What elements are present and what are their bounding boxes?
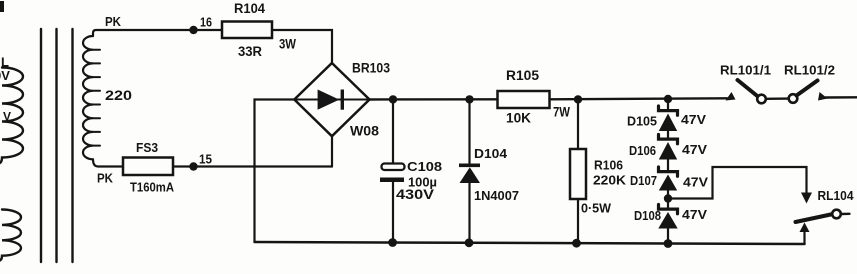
svg-text:16: 16 [200,15,212,30]
zener D108 triangle [658,212,677,229]
svg-text:D105: D105 [627,114,657,129]
zener D107 triangle [659,175,677,191]
wire RL101/2 to edge [826,96,857,99]
junction dot C108 top [389,95,397,103]
svg-text:D106: D106 [629,143,656,158]
zener chain wire bottom [667,229,669,244]
junction dot zener top [664,95,672,103]
zener D106 bar [659,135,678,144]
svg-text:3W: 3W [279,37,296,52]
zener D106 triangle [659,142,677,160]
relay RL104 pivot circle [832,210,841,219]
resistor R104 [222,22,272,39]
fuse FS3 [123,158,173,176]
capacitor C108 top plate [382,164,405,171]
transformer core line 1 [40,29,42,262]
svg-text:W08: W08 [350,124,380,139]
resistor R105 [498,91,550,108]
svg-text:430V: 430V [396,187,434,202]
capacitor C108 bottom plate [380,178,404,183]
zener chain wire from rail [667,99,669,111]
wire between relay pivots [766,97,789,100]
zener D107 bar [659,167,678,176]
capacitor C108 wire bottom [392,182,394,242]
svg-text:1N4007: 1N4007 [474,188,519,203]
transformer core line 2 [55,29,57,262]
wire bottom rail to RL104 lower contact [803,232,805,244]
svg-text:R105: R105 [506,68,539,83]
svg-text:D104: D104 [474,146,508,161]
bottom rail [255,242,805,244]
svg-text:RL101/1: RL101/1 [720,63,771,78]
relay RL104 blade [796,214,834,222]
top rail bridge to R105 [370,98,498,101]
RL104 lower contact arrow [800,223,810,233]
node 15 junction dot [189,162,197,170]
svg-text:RL101/2: RL101/2 [784,63,835,78]
svg-text:47V: 47V [682,142,707,157]
svg-text:PK: PK [105,14,122,29]
diode D104 cathode bar [459,164,480,168]
svg-text:47V: 47V [683,175,708,190]
zener wire 3-4 [667,191,669,208]
zener wire 1-2 [667,131,669,138]
junction dot D104 bottom [465,238,474,247]
wire node 15 to bridge AC2 [194,165,333,167]
resistor R106 wire bottom [577,199,579,243]
RL104 upper contact arrow [801,193,812,204]
capacitor C108 wire top [392,99,394,163]
wire coil bottom to fuse [93,159,123,166]
svg-text:10K: 10K [506,111,531,126]
wire coil top to node 16 [93,30,194,36]
svg-text:PK: PK [97,171,114,186]
svg-text:T160mA: T160mA [130,180,175,195]
svg-text:15: 15 [199,152,212,167]
svg-text:0·5W: 0·5W [581,201,612,216]
resistor R106 wire top [577,99,579,149]
junction dot D104 top [465,95,473,103]
relay RL101/1 pivot circle [757,95,766,104]
relay RL101/1 blade [738,80,759,97]
relay RL101/2 pivot circle [789,94,798,103]
zener D105 bar [659,106,678,115]
junction dot C108 bottom [388,238,397,247]
svg-text:R104: R104 [234,1,265,16]
bridge internal diode line [296,99,368,101]
wire fuse to node 15 [173,165,194,167]
wire bridge AC2 stub [331,136,333,166]
relay contact RL101/2 fixed arrow [818,92,828,101]
svg-text:D108: D108 [634,208,661,223]
svg-text:0V: 0V [0,68,10,83]
svg-text:D107: D107 [630,173,657,188]
wire bridge DC- to bottom rail [255,100,295,243]
transformer primary winding lower (edge-clipped) [0,210,21,261]
transformer secondary winding 220 [83,36,93,159]
svg-text:33R: 33R [238,44,262,59]
zener wire 2-3 [667,160,669,171]
junction dot zener tap [664,194,672,202]
junction dot R106 bottom [572,239,581,248]
bridge internal diode bar [341,90,344,110]
bridge internal diode triangle [318,90,340,110]
tap wire to RL104 upper contact [668,167,807,199]
diode D104 wire top [468,99,470,163]
node 16 junction dot [189,26,197,34]
top rail R105 to relay [550,98,728,99]
junction dot R106 top [574,95,582,103]
svg-text:FS3: FS3 [136,140,158,155]
relay contact RL101/1 fixed arrow [726,92,736,101]
svg-text:47V: 47V [682,207,707,222]
edge mark top-left [0,1,4,12]
svg-text:RL104: RL104 [818,188,855,203]
zener D105 triangle [659,114,677,132]
bridge rectifier BR103 diamond [294,63,369,136]
zener D108 bar [659,205,678,214]
diode D104 wire bottom [468,183,470,243]
winding ticks [93,50,100,146]
svg-text:BR103: BR103 [352,61,390,76]
svg-text:220K: 220K [593,173,627,188]
wire node 16 to R104 [194,29,223,31]
transformer primary winding upper (edge-clipped) [0,68,23,164]
transformer core line 3 [71,29,73,262]
svg-text:R106: R106 [594,158,623,173]
resistor R106 [570,149,586,199]
diode D104 triangle [460,167,481,183]
svg-text:220: 220 [105,88,132,103]
wire RL104 pivot stub [841,213,850,216]
wire R104 to bridge top [272,30,332,63]
svg-text:C108: C108 [407,159,442,174]
svg-text:7W: 7W [553,105,570,120]
junction dot zener bottom [664,239,673,248]
relay RL101/2 blade [797,81,818,96]
svg-text:47V: 47V [681,112,706,127]
